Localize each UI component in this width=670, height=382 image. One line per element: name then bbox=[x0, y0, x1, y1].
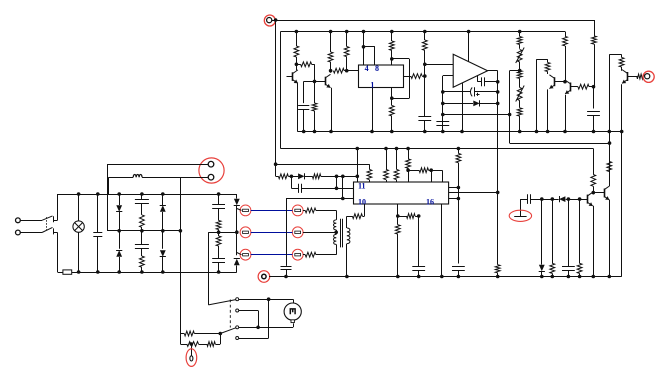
wire pin4 drop bbox=[363, 32, 365, 66]
svg-text:4: 4 bbox=[365, 64, 369, 73]
wire chain w3 bbox=[568, 199, 579, 201]
junction x462/rail bbox=[460, 130, 464, 134]
wire tap drop x509.6 bbox=[509, 71, 511, 144]
connector J1 (input) bbox=[264, 15, 275, 26]
switch SW2 contact 2 bbox=[236, 309, 239, 312]
junction bus/opamp power bbox=[467, 30, 471, 34]
junction chain/rail bbox=[518, 130, 522, 134]
wire chain mid2 bbox=[519, 78, 521, 87]
junction R9 node bbox=[423, 63, 427, 67]
junction chain n3 bbox=[567, 197, 571, 201]
switch SW2 contact 3 bbox=[236, 326, 239, 329]
label U1 pin 4 bbox=[365, 64, 369, 73]
wire box edge lower bbox=[57, 233, 59, 273]
junction colB/bottom bbox=[161, 270, 165, 274]
wire node to Q2 base bbox=[315, 81, 326, 83]
junction x342.8/pin wire bbox=[341, 197, 345, 201]
junction x218/top bbox=[217, 192, 221, 196]
wire D2 cathode lead bbox=[305, 176, 313, 178]
wire D10 lead bbox=[236, 266, 238, 273]
junction bus/chain bbox=[518, 30, 522, 34]
wire op-amp out bbox=[488, 70, 498, 72]
junction pin1/rail bbox=[370, 130, 374, 134]
junction C11/bus bbox=[417, 275, 421, 279]
junction pinA node bbox=[457, 186, 461, 190]
junction chain n2 bbox=[551, 197, 555, 201]
junction R32/bus bbox=[396, 275, 400, 279]
junction row2 node bbox=[190, 342, 194, 346]
wire R26 node drop bbox=[431, 170, 433, 182]
junction R8/rail bbox=[390, 130, 394, 134]
resistor R15 bbox=[563, 32, 568, 82]
resistor R42 bbox=[180, 331, 220, 336]
resistor R32 bbox=[395, 216, 400, 277]
terminal T5 bbox=[292, 227, 303, 238]
junction lamp/bottom rail bbox=[77, 270, 81, 274]
wire chain w1 bbox=[542, 199, 553, 201]
resistor R28 bbox=[591, 175, 596, 193]
capacitor C4 bbox=[478, 77, 498, 86]
junction R7 node bbox=[390, 57, 394, 61]
wire D1 cathode lead bbox=[480, 103, 498, 105]
wire out drop bbox=[497, 71, 499, 193]
switch SW2 contact 1 bbox=[236, 298, 239, 301]
wire J3 pin2 wire b bbox=[109, 177, 134, 179]
junction Q4 emitter/rail bbox=[563, 130, 567, 134]
terminal T3 bbox=[240, 249, 251, 260]
terminal T6 bbox=[292, 249, 303, 260]
junction R33 node bbox=[417, 214, 421, 218]
resistor R18 bbox=[619, 55, 624, 71]
wire top rail V+ bbox=[272, 20, 594, 22]
wire x236 lower bbox=[236, 232, 238, 255]
terminal T2 bbox=[240, 227, 251, 238]
wire colB lead1 bbox=[162, 194, 164, 205]
wire prim top lead bbox=[336, 210, 338, 220]
capacitor C10 bbox=[562, 199, 575, 276]
label U1 pin 1 bbox=[370, 81, 374, 90]
capacitor C17 bbox=[212, 246, 225, 272]
wire Q2 collector lead bbox=[330, 71, 332, 73]
junction R16/x593 bbox=[592, 85, 596, 89]
junction y148/R27 bbox=[457, 147, 461, 151]
capacitor C7 bbox=[291, 184, 353, 193]
wire U3 pin10 drop bbox=[364, 204, 366, 216]
label U1 pin 8 bbox=[375, 64, 379, 73]
resistor R38 bbox=[140, 204, 145, 231]
junction row node1 bbox=[290, 175, 294, 179]
wire node to Q7 base bbox=[593, 192, 604, 194]
switch SW1 contact a bbox=[53, 216, 55, 222]
wire x593 lower bbox=[593, 87, 595, 109]
transistor Q4 bbox=[565, 80, 570, 94]
resistor R16 bbox=[570, 84, 593, 89]
terminal T1 bbox=[240, 205, 251, 216]
resistor R10 bbox=[404, 74, 425, 79]
junction x286/bus bbox=[284, 275, 288, 279]
resistor R27 bbox=[456, 149, 461, 188]
wire prim join bbox=[336, 230, 338, 235]
wire x180 drop bbox=[180, 177, 182, 344]
wire loop top bbox=[392, 58, 410, 60]
junction x609/rail bbox=[608, 130, 612, 134]
diode D10 bbox=[234, 259, 240, 266]
junction Q1/Q2 node bbox=[313, 80, 317, 84]
junction prim center tap bbox=[334, 231, 338, 235]
resistor R21 bbox=[312, 174, 357, 179]
junction colM/bottom bbox=[140, 270, 144, 274]
wire D3 lead a bbox=[552, 199, 558, 201]
wire blue link 1 bbox=[251, 210, 293, 212]
wire motor top lead bbox=[293, 299, 295, 303]
resistor R20 bbox=[276, 174, 292, 179]
switch SW1 contact b bbox=[53, 228, 55, 234]
wire R9 node drop bbox=[424, 64, 426, 76]
wire C4 hang bbox=[477, 76, 479, 82]
transistor Q7 bbox=[604, 186, 609, 200]
wire R26 wire right bbox=[431, 170, 442, 172]
junction C1/rail bbox=[302, 130, 306, 134]
junction pinB/out line bbox=[496, 191, 500, 195]
transformer T1 secondary winding bbox=[347, 228, 350, 244]
resistor R8 bbox=[389, 98, 394, 131]
wire Q1 base stub bbox=[287, 76, 293, 78]
wire motor bottom lead bbox=[293, 323, 295, 327]
resistor R17 bbox=[592, 36, 597, 87]
junction x441/bus bbox=[440, 275, 444, 279]
wire D4 lead bbox=[541, 199, 543, 264]
inductor L1 bbox=[133, 174, 142, 177]
transistor Q2 bbox=[325, 74, 330, 87]
wire top block bottom rail bbox=[297, 131, 621, 133]
label U3 pin 16 bbox=[426, 197, 434, 206]
wire D3 lead b bbox=[566, 199, 569, 201]
wire chain tap out bbox=[510, 70, 520, 72]
junction top rail / left drop bbox=[274, 18, 278, 22]
terminal GND2 bbox=[258, 271, 270, 283]
wire wire2 bbox=[208, 232, 236, 234]
wire to Q4 collector bbox=[565, 81, 567, 84]
wire bottom bus bbox=[269, 276, 622, 278]
wire inv input bbox=[443, 75, 453, 77]
junction tap/fb wire bbox=[508, 113, 512, 117]
junction bus/R9 bbox=[423, 30, 427, 34]
resistor R6 bbox=[344, 32, 349, 71]
junction Q6 emitter/bus bbox=[592, 275, 596, 279]
junction loop node bbox=[390, 96, 394, 100]
junction D4/bus bbox=[540, 275, 544, 279]
wire J3 pin2 wire a bbox=[142, 177, 208, 179]
wire cap branch rise bbox=[336, 176, 338, 188]
wire prim bottom lead bbox=[336, 244, 338, 254]
wire colA lead1 bbox=[119, 194, 121, 205]
wire U3 pin drop b bbox=[441, 204, 443, 277]
wire power top rail bbox=[58, 194, 237, 196]
junction x236/wire2 bbox=[235, 230, 239, 234]
resistor R13 bbox=[517, 101, 522, 132]
wire Q3 emitter drop bbox=[547, 89, 549, 131]
wire row2 rise bbox=[220, 334, 222, 345]
junction Q7 emitter/bus bbox=[608, 275, 612, 279]
diode D6 bbox=[116, 250, 122, 256]
wire pin1 drop bbox=[107, 164, 109, 231]
lamp LA1 bbox=[73, 194, 84, 272]
junction C5/out bbox=[496, 90, 500, 94]
svg-text:16: 16 bbox=[426, 197, 434, 206]
junction x218/wire2 bbox=[217, 230, 221, 234]
transistor Q3 bbox=[549, 75, 554, 89]
junction C8/bus bbox=[457, 275, 461, 279]
label U3 pin 10 bbox=[358, 197, 366, 206]
wire branch top bbox=[537, 59, 548, 61]
wire pin C bbox=[449, 198, 459, 200]
capacitor C2 bbox=[418, 76, 431, 131]
junction C6/rail bbox=[592, 130, 596, 134]
wire rail corner right bbox=[236, 194, 238, 199]
wire inner bus drop bbox=[280, 32, 282, 149]
wire x357 link bbox=[357, 149, 359, 183]
wire pin A bbox=[449, 187, 459, 189]
resistor R12 bbox=[517, 71, 522, 79]
wire blue link 2 bbox=[251, 232, 293, 234]
transistor Q6 bbox=[588, 192, 593, 206]
junction R3/rail bbox=[313, 130, 317, 134]
wire x180 corner bbox=[180, 334, 182, 345]
junction colM/top bbox=[140, 192, 144, 196]
switch SW2 gang link bbox=[229, 300, 231, 328]
junction pinC node bbox=[457, 197, 461, 201]
junction c2/c3 node bbox=[256, 326, 260, 330]
junction inv node a bbox=[441, 90, 445, 94]
wire c1 wire bbox=[239, 299, 293, 301]
capacitor C13 bbox=[93, 194, 102, 272]
junction R10 node bbox=[423, 74, 427, 78]
resistor R31 bbox=[577, 199, 582, 276]
junction x218/bottom bbox=[217, 270, 221, 274]
wire colA lead2 bbox=[119, 212, 121, 249]
resistor R35 bbox=[347, 214, 365, 219]
transistor Q1 bbox=[293, 70, 298, 83]
svg-text:11: 11 bbox=[358, 182, 366, 191]
label U3 pin 11 bbox=[358, 182, 366, 191]
junction C10/bus bbox=[567, 275, 571, 279]
resistor R1 bbox=[294, 32, 299, 65]
wire x342.8 drop bbox=[342, 176, 344, 198]
junction x536/rail bbox=[535, 130, 539, 134]
junction colM/mid bbox=[140, 229, 144, 233]
wire T5 to tap bbox=[303, 232, 336, 234]
transistor Q5 bbox=[622, 70, 628, 84]
wire Q3 base out bbox=[555, 81, 565, 83]
resistor R24 bbox=[394, 149, 399, 183]
wire loop right bbox=[409, 59, 411, 98]
wire V+ corner drop bbox=[594, 20, 596, 36]
variable resistor RV2 bbox=[516, 86, 525, 102]
wire y148.5 wire bbox=[281, 148, 594, 150]
resistor R19 bbox=[637, 74, 644, 79]
junction row node4 bbox=[356, 175, 360, 179]
op-amp U2 bbox=[453, 54, 487, 87]
resistor R40 bbox=[216, 208, 221, 232]
wire colB lead2 bbox=[162, 212, 164, 249]
wire y164 wire bbox=[276, 164, 370, 166]
resistor R43 bbox=[180, 342, 203, 347]
wire inner bus y31.5 bbox=[281, 31, 566, 33]
wire Q1 collector lead bbox=[296, 64, 298, 70]
capacitor C3 bbox=[436, 122, 449, 132]
wire y148 corner drop bbox=[593, 149, 595, 175]
wire node to U1 pin2 bbox=[347, 70, 359, 72]
junction C13/top rail bbox=[96, 192, 100, 196]
capacitor C9 bbox=[520, 194, 541, 204]
diode D7 bbox=[160, 205, 166, 211]
wire D4 lead2 bbox=[541, 272, 543, 277]
switch SW2 blade 2 bbox=[220, 328, 236, 334]
junction bus/R7 bbox=[390, 30, 394, 34]
wire pin B bbox=[449, 192, 498, 194]
wire left outer drop bbox=[275, 20, 277, 164]
thermistor RT1 bbox=[186, 344, 197, 366]
wire Q6 base feed bbox=[580, 199, 588, 201]
wire x286 rise bbox=[286, 199, 288, 266]
junction mid/x180 bbox=[179, 229, 183, 233]
resistor R5 bbox=[333, 68, 346, 73]
wire x442 drop bbox=[442, 170, 444, 182]
resistor R23 bbox=[384, 149, 389, 183]
junction R4 node bbox=[329, 69, 333, 73]
svg-text:8: 8 bbox=[375, 64, 379, 73]
wire inv drop bbox=[442, 76, 444, 128]
wire D2 anode lead bbox=[291, 176, 298, 178]
wire hook left bbox=[609, 55, 611, 132]
wire J3 pin1 wire bbox=[107, 164, 208, 166]
junction Q6 collector node bbox=[592, 191, 596, 195]
diode D2 bbox=[298, 173, 304, 179]
junction Q2 emitter/rail bbox=[329, 130, 333, 134]
resistor R14 bbox=[545, 59, 550, 74]
connector J3 bbox=[199, 158, 224, 183]
resistor R26 bbox=[408, 168, 431, 173]
wire R2 to base drop bbox=[314, 64, 316, 81]
capacitor C16 bbox=[212, 194, 225, 209]
wire U1 pin1 drop bbox=[372, 88, 374, 132]
wire outer to row drop bbox=[275, 164, 277, 176]
capacitor C14 bbox=[135, 194, 149, 204]
junction C3/rail bbox=[441, 130, 445, 134]
wire fb lower wire bbox=[443, 114, 510, 116]
wire colA lead3 bbox=[119, 257, 121, 272]
junction chain tap bbox=[518, 69, 522, 73]
wire pin8 jog top bbox=[364, 46, 375, 48]
ground GND1 bbox=[509, 199, 531, 221]
wire bridge mid wire bbox=[107, 230, 180, 232]
junction colA/mid bbox=[117, 229, 121, 233]
wire c3 wire bbox=[239, 327, 293, 329]
wire sec bottom lead bbox=[346, 244, 348, 277]
resistor R4 bbox=[328, 32, 333, 71]
resistor R9 bbox=[422, 32, 427, 65]
junction c1/c4 node bbox=[267, 297, 271, 301]
junction bus/R1 bbox=[295, 30, 299, 34]
wire Q7 collector rise bbox=[609, 171, 611, 186]
wire Q1 emitter drop bbox=[297, 83, 299, 131]
resistor R7 bbox=[389, 32, 394, 59]
junction inv node b bbox=[441, 102, 445, 106]
wire AC2 lead bbox=[21, 232, 43, 234]
wire c4 rise bbox=[268, 299, 270, 338]
op-amp U1 (timer IC box) bbox=[359, 65, 404, 88]
resistor R41 bbox=[216, 232, 221, 246]
junction bus/R6 bbox=[345, 30, 349, 34]
transformer T1 primary winding upper bbox=[333, 220, 336, 230]
wire blue link 3 bbox=[251, 254, 293, 256]
junction x397 node bbox=[396, 214, 400, 218]
terminal AC1 bbox=[16, 218, 21, 223]
resistor R29 bbox=[607, 132, 612, 172]
wire Q7 emitter drop bbox=[609, 200, 611, 277]
wire x536 drop bbox=[536, 59, 538, 131]
junction bus/R4 bbox=[329, 30, 333, 34]
diode D9 bbox=[234, 199, 240, 206]
switch SW1 blade b bbox=[42, 227, 53, 232]
T1 feed diagonal bbox=[237, 209, 242, 211]
junction R31/bus bbox=[578, 275, 582, 279]
wire pin8 drop bbox=[374, 47, 376, 65]
resistor R36 bbox=[303, 208, 336, 213]
resistor R11 bbox=[517, 32, 522, 49]
wire colB lead3 bbox=[162, 257, 164, 272]
wire y143 wire bbox=[510, 143, 610, 145]
connector J2 (output) bbox=[643, 71, 654, 82]
junction row node2 bbox=[335, 175, 339, 179]
wire c2 drop bbox=[258, 311, 260, 328]
wire Q5 base out bbox=[627, 76, 637, 78]
junction cap branch/pin11 wire bbox=[335, 187, 339, 191]
capacitor C8 bbox=[452, 267, 465, 277]
wire x621 drop bbox=[621, 132, 623, 277]
wire pin2 drop bbox=[108, 177, 110, 194]
wire D1 anode lead bbox=[443, 103, 473, 105]
switch SW1 gang link bbox=[46, 217, 48, 230]
capacitor C6 bbox=[587, 112, 600, 132]
wire U3 pin drop a bbox=[397, 204, 399, 216]
junction colA/top bbox=[117, 192, 121, 196]
junction C2/rail bbox=[423, 130, 427, 134]
junction bus/pin4 bbox=[362, 30, 366, 34]
junction colB/mid bbox=[161, 229, 165, 233]
wire triangle drop bbox=[462, 83, 464, 131]
wire U1 bottom pin lead bbox=[391, 88, 393, 99]
wire to op-amp + input bbox=[425, 64, 453, 66]
wire power bottom rail bbox=[58, 272, 237, 274]
junction row node3 bbox=[341, 175, 345, 179]
transformer T1 core bbox=[341, 219, 343, 248]
resistor R30 bbox=[550, 199, 555, 276]
resistor R39 bbox=[140, 248, 145, 272]
resistor R33 bbox=[398, 214, 419, 219]
junction inv node c bbox=[441, 113, 445, 117]
wire x458 drop bbox=[458, 188, 460, 264]
resistor R25 bbox=[406, 149, 411, 183]
variable resistor RV1 bbox=[516, 48, 525, 64]
diode D3 bbox=[559, 196, 565, 202]
junction chain n1 bbox=[540, 197, 544, 201]
diode D4 bbox=[539, 265, 545, 272]
wire Q6 collector rise bbox=[593, 193, 595, 195]
resistor R2 bbox=[296, 62, 314, 67]
wire AC1 lead bbox=[21, 220, 43, 222]
capacitor C11 bbox=[412, 216, 425, 277]
